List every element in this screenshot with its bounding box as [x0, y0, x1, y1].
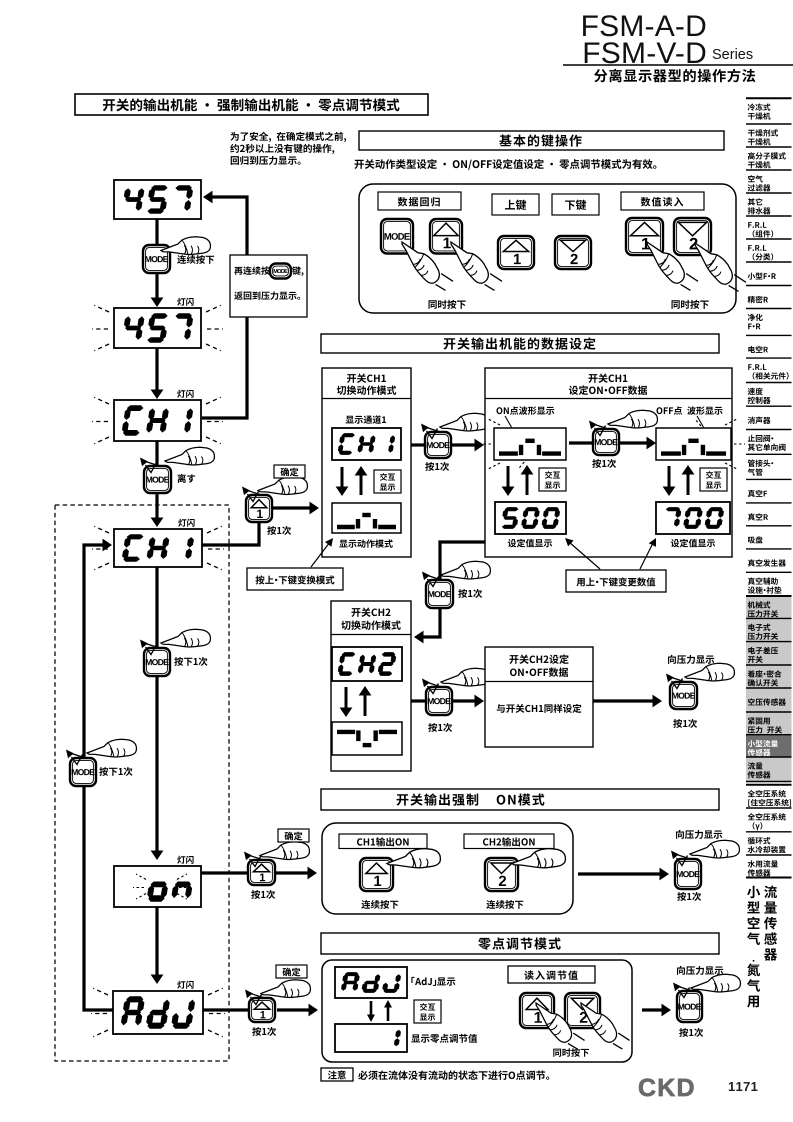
note safety line2 — [230, 144, 334, 154]
label to-pressure 2 — [676, 830, 722, 839]
wire loop left — [84, 545, 113, 1010]
ch2-set rule — [485, 681, 593, 683]
hand at MODE9 — [690, 840, 739, 858]
hand on up1 A — [447, 231, 503, 297]
ch1-set title1 — [588, 374, 627, 383]
basic ops panel — [359, 184, 736, 313]
press arrow MODE1 — [424, 427, 440, 432]
label MODE7 — [428, 723, 452, 732]
label m5 — [174, 657, 207, 666]
alt-display text ON — [545, 471, 560, 479]
sidebar background blocks — [746, 596, 792, 618]
hand at m6 — [87, 739, 136, 757]
hand at k2 — [260, 842, 309, 860]
arrow change-mode to wf — [311, 542, 330, 567]
label MODE8 — [673, 719, 697, 728]
display AdJ flashing — [113, 991, 203, 1034]
footer page number — [729, 1082, 758, 1091]
caution text — [358, 1070, 549, 1080]
label MODE2 — [592, 459, 616, 468]
arrow into 457 flashing — [151, 298, 164, 308]
basic ops header text — [499, 134, 581, 146]
arrow into CH1a — [151, 390, 164, 400]
press arrow m5 — [143, 643, 159, 648]
hand at zero down2 — [578, 993, 632, 1056]
arrow into 457 top — [203, 191, 213, 204]
label k2 press — [251, 890, 275, 899]
section2 header box — [321, 334, 719, 353]
hand at MODE1 — [440, 413, 489, 431]
arrow into adj — [151, 975, 164, 985]
key down2 zero — [565, 993, 600, 1028]
ch1-switch box — [322, 368, 411, 557]
arrow ch2set to MODE8 — [593, 699, 655, 702]
label read-adjust box — [508, 966, 595, 983]
note safety line3 — [231, 156, 301, 165]
hand at m4 — [165, 447, 214, 465]
arrow panel to MODE10 — [642, 1008, 664, 1011]
hand at k1 — [258, 477, 307, 495]
label data-return box — [378, 192, 461, 210]
arrow into on — [151, 851, 164, 861]
ch1-set title2 — [569, 385, 647, 395]
caution box — [321, 1068, 353, 1081]
display AdJ small — [335, 967, 407, 998]
wire m5 to on — [155, 676, 158, 852]
arrow MODE7 to ch2set — [452, 699, 477, 702]
label flash 1 — [177, 298, 193, 306]
section4 header box — [321, 933, 719, 954]
ch1-set title rule — [485, 398, 732, 400]
wire ch2 to MODE7 — [411, 699, 425, 702]
wire m4 to CH1b — [155, 493, 158, 520]
footer CKD logo — [639, 1079, 693, 1097]
label up-key box — [492, 194, 539, 215]
display waveform OFF — [656, 428, 731, 460]
hand at MODE7 — [441, 668, 490, 686]
key up1 forced — [360, 858, 393, 891]
press arrow k1 — [245, 490, 261, 495]
press arrow m4 — [143, 461, 159, 466]
label simultaneous A — [429, 300, 466, 309]
wire on to k2 — [201, 871, 247, 874]
line OFF-point — [697, 416, 708, 435]
alt-display box adj — [414, 1000, 441, 1023]
display 700 — [656, 502, 730, 534]
press arrow m6 — [69, 753, 85, 758]
display 457 flashing — [114, 308, 201, 348]
display CH1 small — [332, 428, 401, 460]
label confirm k3 — [283, 968, 301, 977]
label zero-value — [411, 1034, 477, 1043]
key up1 big B — [626, 218, 663, 255]
label confirm k1 — [281, 468, 299, 477]
arrow value to 500 — [569, 542, 600, 569]
ch2-switch title2 — [341, 621, 401, 630]
ch2-switch box — [331, 601, 411, 771]
alt-display box OFF — [700, 468, 727, 491]
arrow k2 to panel — [275, 871, 309, 874]
label value-read box — [621, 192, 704, 210]
display 500 — [495, 502, 566, 534]
wire CH1b down — [155, 567, 158, 648]
label ch2-out text — [483, 837, 535, 846]
ch1-switch title1 — [347, 374, 386, 383]
hand at MODE8 — [685, 663, 734, 681]
updown arrows 1 — [341, 467, 344, 489]
key up1 k1 — [246, 495, 272, 522]
label flash on — [177, 856, 193, 864]
section4 header text — [478, 937, 560, 949]
alt-display box ON — [539, 468, 566, 491]
label m4 release — [178, 474, 196, 483]
hand on MODE big — [398, 231, 454, 297]
section3 header box — [321, 789, 719, 810]
sidebar separator lines — [746, 97, 792, 99]
label confirm k2 box — [278, 829, 309, 842]
button MODE m4 — [144, 466, 171, 493]
key down2 big B — [674, 218, 711, 255]
wire CH1a to m4 — [155, 441, 158, 466]
press arrow MODE10 — [676, 986, 692, 991]
key up1 zero — [520, 993, 554, 1028]
button MODE9 — [675, 859, 701, 889]
button MODE10 — [677, 991, 702, 1022]
key down2 small — [555, 236, 591, 269]
title box — [75, 94, 428, 115]
key up1 k2 — [248, 860, 275, 885]
press arrow MODE3 — [425, 575, 441, 580]
ch2-switch title1 — [351, 608, 390, 617]
zero-adjust panel — [322, 960, 632, 1062]
display CH1 flashing B — [114, 529, 202, 567]
label flash 3 — [178, 519, 194, 527]
display waveform ON — [494, 428, 566, 460]
wire CH1b to key1 — [202, 523, 259, 545]
display waveform 2 — [332, 722, 402, 755]
hand at forced up1 — [387, 849, 440, 868]
alt-display text OFF — [706, 471, 721, 479]
svg-text:Series: Series — [712, 47, 753, 63]
label cont2 — [486, 900, 523, 909]
label simultaneous B — [672, 300, 709, 309]
label to-pressure 1 — [668, 655, 714, 664]
label show-channel1 — [346, 415, 386, 424]
label m6 — [99, 767, 132, 776]
label ch1-out text — [357, 837, 409, 846]
section2 header text — [444, 337, 596, 349]
button MODE m1 — [143, 245, 170, 273]
hand at MODE3 — [441, 561, 490, 579]
label value-read text — [641, 197, 684, 206]
hand at MODE10 — [691, 974, 740, 992]
label show-action-mode — [339, 539, 393, 547]
hand at MODE2 — [608, 410, 657, 428]
key down2 forced — [485, 858, 518, 891]
ch2-set title1 — [509, 654, 568, 664]
alt-display text 1 — [380, 473, 395, 481]
display CH2 — [332, 647, 402, 681]
label OFF-point — [656, 406, 722, 415]
note change-mode box — [247, 568, 343, 590]
display on flashing — [114, 866, 201, 907]
ch2-set body — [497, 704, 582, 713]
arrow k3 to panel — [277, 1008, 311, 1011]
note return text1a — [234, 266, 269, 275]
note return mini MODE — [270, 264, 291, 279]
label ch2-out box — [464, 834, 554, 849]
label confirm k2 — [285, 832, 303, 841]
label adj-display — [411, 977, 455, 986]
label k1 press — [267, 526, 291, 535]
wire 457 to MODE — [155, 219, 158, 301]
wire to CH1a — [155, 348, 158, 393]
key MODE big — [381, 219, 413, 254]
label read-adjust text — [524, 971, 577, 980]
sidebar item texts — [748, 104, 771, 111]
label setval left — [508, 539, 552, 548]
label setval right — [671, 539, 715, 548]
section3 header text — [397, 793, 479, 805]
hand at m5 — [161, 629, 210, 647]
note change-mode text — [255, 575, 334, 584]
note return text1b — [292, 266, 303, 276]
label to-pressure 3 — [677, 966, 723, 975]
wire adj to k3 — [203, 1008, 249, 1011]
label data-return text — [398, 197, 440, 207]
wire on to adj — [155, 907, 158, 977]
wire return connector — [202, 197, 247, 418]
updown arrows CH2 — [345, 687, 348, 710]
updown arrows OFF — [668, 466, 671, 489]
ch2-set title2 — [510, 668, 568, 677]
note safety line1 — [230, 132, 346, 142]
arrow MODE2 to wfOFF — [619, 441, 649, 444]
button MODE2 — [593, 429, 619, 455]
label confirm k1 box — [274, 465, 305, 478]
label k3 press — [252, 1027, 276, 1036]
note change-value box — [566, 570, 666, 592]
updown arrows ON — [507, 466, 510, 489]
alt-display text adj — [420, 1003, 435, 1011]
title text — [103, 98, 400, 111]
display value 1 — [335, 1024, 407, 1052]
alt-display box 1 — [374, 470, 401, 493]
arrow value to 700 — [640, 543, 653, 569]
basic ops header box — [359, 131, 724, 150]
press arrow MODE7 — [425, 682, 441, 687]
caution label — [328, 1070, 346, 1079]
key up1 k3 — [249, 998, 275, 1022]
label down-key box — [552, 194, 599, 215]
basic ops subtitle — [354, 159, 656, 170]
note change-value text — [577, 577, 656, 586]
label confirm k3 box — [276, 965, 307, 978]
label ON-point — [496, 406, 554, 415]
display 457 top — [114, 180, 201, 219]
label MODE3 — [458, 589, 482, 598]
label down-key text — [565, 200, 586, 210]
label MODE10 — [679, 1028, 703, 1037]
button MODE3 — [426, 580, 453, 608]
arrow panel to MODE9 — [578, 872, 661, 875]
line ON-point — [505, 416, 516, 435]
hand on down2 B — [691, 232, 747, 298]
label m1 — [177, 255, 214, 264]
arrow into ch2 box — [414, 631, 424, 644]
hand on up1 B — [643, 231, 699, 297]
label ch1-out box — [339, 834, 427, 849]
key up1 big A — [430, 219, 462, 254]
note return text2 — [234, 291, 300, 299]
label MODE9 — [677, 892, 701, 901]
press arrow MODE8 — [669, 677, 685, 682]
label MODE1 — [425, 462, 449, 471]
arrow k1 to mode box — [272, 506, 312, 509]
note return box — [230, 255, 307, 317]
sidebar vertical category text — [747, 886, 760, 898]
ch2-set box — [485, 647, 593, 747]
arrow into CH1b — [151, 518, 164, 528]
label flash 2 — [177, 390, 193, 398]
press arrow k2 — [247, 855, 263, 860]
button MODE1 — [425, 432, 451, 458]
press arrow MODE9 — [674, 854, 690, 859]
key up1 small — [498, 236, 534, 269]
button MODE7 — [426, 687, 452, 715]
wire MODE3 down-left — [421, 608, 440, 637]
ch1-switch title2 — [337, 386, 397, 395]
press arrow MODE2 — [592, 424, 608, 429]
updown arrows adj — [370, 1001, 373, 1016]
label cont1 — [361, 900, 398, 909]
hand at zero up1 — [533, 993, 587, 1056]
press arrow k3 — [248, 993, 264, 998]
label flash adj — [177, 981, 193, 989]
arrow MODE1 to setbox — [451, 443, 477, 446]
wire setbox to MODE3 — [440, 542, 485, 581]
display waveform 1 — [332, 503, 401, 533]
button MODE m5 — [144, 648, 170, 676]
ch2-switch title rule — [331, 634, 411, 636]
dashed mode-loop box — [55, 505, 229, 1061]
wire ch1switch to MODE1 — [411, 443, 424, 446]
button MODE8 — [670, 682, 697, 709]
forced-on panel — [322, 823, 573, 914]
ch1-set box — [485, 368, 732, 557]
button MODE m6 — [70, 758, 96, 786]
ch1-switch title rule — [322, 398, 411, 400]
hand at m1 — [161, 237, 210, 255]
header subtitle — [594, 69, 755, 83]
label up-key text — [505, 200, 526, 210]
wire wfON to MODE2 — [569, 441, 592, 444]
display CH1 flashing A — [114, 400, 201, 441]
hand at forced down2 — [512, 849, 565, 868]
arrow loop into CH1b — [103, 539, 113, 552]
label simultaneous zero — [553, 1048, 589, 1057]
header rule — [563, 64, 793, 66]
hand at k3 — [261, 980, 310, 998]
